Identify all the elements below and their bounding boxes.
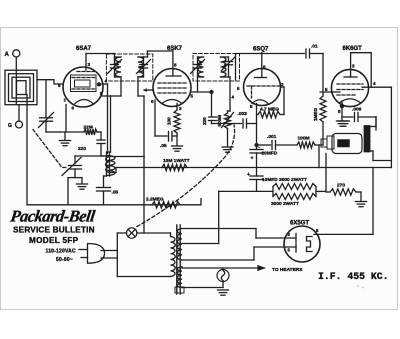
svg-text:+: + (247, 172, 250, 178)
svg-text:TO HEATERS: TO HEATERS (272, 267, 303, 273)
svg-text:.05: .05 (112, 190, 119, 196)
svg-text:+: + (251, 156, 254, 162)
svg-text:G: G (8, 123, 12, 129)
svg-text:.001: .001 (267, 134, 277, 140)
svg-text:I.F. 455 KC.: I.F. 455 KC. (318, 271, 389, 282)
svg-text:A: A (5, 52, 10, 58)
svg-text:.05: .05 (160, 143, 167, 149)
svg-text:1MEG: 1MEG (313, 108, 318, 121)
svg-text:20MFD: 20MFD (262, 151, 278, 157)
svg-text:.01: .01 (311, 44, 318, 50)
svg-text:3000 2WATT: 3000 2WATT (271, 201, 299, 207)
svg-text:100M: 100M (298, 136, 310, 142)
svg-text:50-60~: 50-60~ (56, 257, 73, 263)
svg-text:MODEL 5FP: MODEL 5FP (29, 236, 79, 245)
svg-text:6SQ7: 6SQ7 (253, 46, 269, 52)
svg-text:110-120VAC: 110-120VAC (46, 249, 76, 255)
svg-text:.003: .003 (238, 111, 248, 117)
svg-text:SERVICE BULLETIN: SERVICE BULLETIN (13, 226, 95, 235)
svg-text:6K6GT: 6K6GT (343, 46, 363, 52)
svg-text:100: 100 (167, 117, 172, 125)
svg-text:6SK7: 6SK7 (167, 46, 183, 52)
svg-text:2.2MEG: 2.2MEG (146, 197, 164, 203)
svg-text:.006: .006 (352, 107, 362, 113)
svg-text:500M: 500M (217, 115, 222, 127)
svg-text:220: 220 (202, 117, 207, 125)
svg-text:270: 270 (337, 183, 345, 189)
svg-text:22M: 22M (84, 125, 93, 131)
svg-text:Packard-Bell: Packard-Bell (8, 207, 96, 226)
svg-text:10MFD 3000 2WATT: 10MFD 3000 2WATT (262, 177, 307, 183)
svg-text:220: 220 (78, 146, 86, 152)
svg-text:6SA7: 6SA7 (76, 46, 92, 52)
